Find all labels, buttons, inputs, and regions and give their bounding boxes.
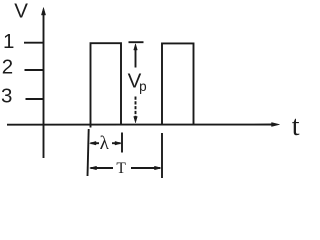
x-axis (t axis) xyxy=(7,124,273,126)
svg-text:2: 2 xyxy=(2,55,13,78)
svg-text:1: 1 xyxy=(3,30,14,53)
svg-text:t: t xyxy=(292,111,300,142)
svg-text:λ: λ xyxy=(100,133,110,154)
Vp dimension down-arrowhead xyxy=(134,117,138,123)
svg-text:V: V xyxy=(14,0,28,23)
T dimension right arrowhead xyxy=(155,166,162,170)
T dimension left arrowhead xyxy=(90,166,97,170)
x-axis arrowhead xyxy=(272,123,280,127)
tick level 3 xyxy=(26,98,44,100)
T dimension left arrow shaft xyxy=(91,167,114,169)
Vp dimension down-arrow shaft xyxy=(135,97,137,118)
tick level 1 xyxy=(24,42,44,44)
svg-text:3: 3 xyxy=(1,84,12,107)
y-axis (V axis) xyxy=(43,12,45,158)
pulse 1 waveform xyxy=(91,43,122,127)
Vp dimension up-arrowhead xyxy=(134,44,138,50)
pulse 2 waveform xyxy=(162,43,194,124)
T dimension right arrow shaft xyxy=(131,167,160,169)
T dimension right tick xyxy=(161,133,163,178)
svg-text:T: T xyxy=(116,160,126,177)
y-axis arrowhead xyxy=(41,8,45,16)
Vp dimension up-arrow shaft xyxy=(135,49,137,68)
lambda dimension right arrowhead xyxy=(115,141,121,145)
svg-text:Vp: Vp xyxy=(128,70,147,95)
tick level 2 xyxy=(25,69,44,71)
lambda dimension left arrow shaft xyxy=(91,142,100,144)
lambda dimension left tick xyxy=(88,129,89,176)
lambda dimension right arrow shaft xyxy=(112,142,121,144)
lambda dimension right tick xyxy=(121,133,123,153)
lambda dimension left arrowhead xyxy=(90,141,96,145)
Vp dimension top cap xyxy=(129,41,144,43)
